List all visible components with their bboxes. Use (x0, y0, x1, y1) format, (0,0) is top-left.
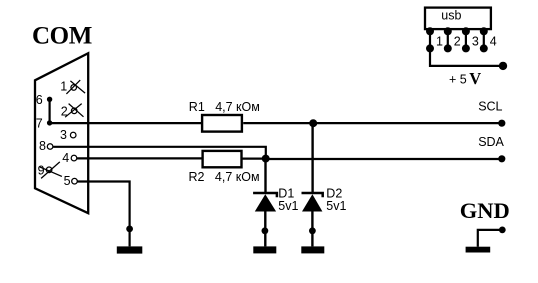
pin 5 (64, 174, 78, 188)
wire SCL junction down to D2 (311, 123, 313, 193)
wire D1 to ground (264, 212, 266, 247)
wire R1 to SCL terminal (243, 122, 501, 124)
svg-text:4: 4 (62, 151, 69, 165)
pin 3 (60, 128, 76, 142)
svg-text:6: 6 (36, 93, 43, 107)
usb pin 4 (480, 27, 497, 52)
wire pin4 to R2 (77, 157, 203, 159)
usb label (441, 9, 461, 23)
zener diode D2 (302, 193, 323, 212)
svg-text:SCL: SCL (478, 100, 502, 114)
svg-text:8: 8 (39, 139, 46, 153)
D1 value 5v1 (278, 199, 298, 213)
wire pin7 to R1 (SCL net) (50, 122, 202, 124)
node junction SCL/D2 (309, 119, 317, 127)
svg-text:usb: usb (441, 9, 461, 23)
svg-text:R1 4,7 кОм: R1 4,7 кОм (189, 100, 260, 114)
svg-text:5v1: 5v1 (278, 199, 298, 213)
node on D1 ground wire (262, 227, 269, 234)
GND label (460, 198, 510, 223)
svg-text:3: 3 (60, 128, 67, 142)
D2 value 5v1 (326, 199, 346, 213)
pin 4 (62, 151, 76, 165)
svg-text:SDA: SDA (478, 135, 504, 149)
SCL terminal dot (498, 120, 505, 127)
svg-text:V: V (469, 69, 481, 88)
R1 value label (189, 100, 260, 114)
usb pin 1 (426, 27, 443, 52)
resistor R1 (202, 115, 242, 132)
svg-text:R2 4,7 кОм: R2 4,7 кОм (189, 170, 260, 184)
wire pin8 to SDA junction (53, 147, 266, 159)
GND terminal symbol (478, 227, 506, 247)
svg-text:2: 2 (454, 35, 461, 49)
svg-text:7: 7 (36, 116, 43, 130)
node on pin5 ground wire (126, 226, 133, 233)
svg-text:3: 3 (472, 35, 479, 49)
node junction SDA/D1 (262, 155, 270, 163)
ground (COM) (117, 246, 143, 253)
D1 label (278, 187, 294, 201)
node on D2 ground wire (309, 227, 316, 234)
pin 8 (39, 139, 53, 153)
svg-text:1: 1 (436, 35, 443, 49)
ground (D2) (301, 246, 324, 253)
wire usb pin1 to +5V terminal (430, 48, 502, 66)
+5V terminal dot (499, 62, 507, 70)
wire pin5 to ground (78, 182, 130, 247)
usb pin 3 (462, 27, 479, 52)
pin 6 (junction dot) (36, 93, 53, 107)
svg-text:5: 5 (64, 174, 71, 188)
wire pin6 to pin7 (48, 99, 50, 123)
ground (D1) (253, 246, 276, 253)
COM label (32, 23, 92, 50)
D2 label (326, 187, 342, 201)
pin 9 (crossed out) (38, 162, 62, 179)
wire R2 to SDA junction (242, 158, 266, 160)
R2 value label (189, 170, 260, 184)
svg-text:GND: GND (460, 198, 510, 223)
svg-text:COM: COM (32, 23, 92, 50)
ground (GND terminal) (466, 247, 491, 253)
SDA label (478, 135, 504, 149)
pin 1 (crossed out) (60, 80, 85, 94)
wire D2 to ground (311, 212, 313, 247)
svg-text:1: 1 (60, 80, 67, 94)
SDA terminal dot (498, 155, 505, 162)
svg-text:4: 4 (490, 35, 497, 49)
zener diode D1 (253, 193, 277, 212)
wire SDA junction to SDA terminal (266, 158, 502, 160)
svg-text:+ 5: + 5 (449, 73, 467, 87)
resistor R2 (203, 151, 242, 167)
SCL label (478, 100, 502, 114)
USB connector body (425, 8, 491, 30)
wire SDA junction down to D1 (264, 159, 266, 193)
usb pin 2 (444, 27, 461, 52)
+5V label (449, 69, 481, 88)
svg-text:5v1: 5v1 (326, 199, 346, 213)
pin 2 (crossed out) (61, 104, 84, 119)
DB9 COM connector body (35, 53, 88, 213)
pin 7 (junction dot) (36, 116, 53, 130)
